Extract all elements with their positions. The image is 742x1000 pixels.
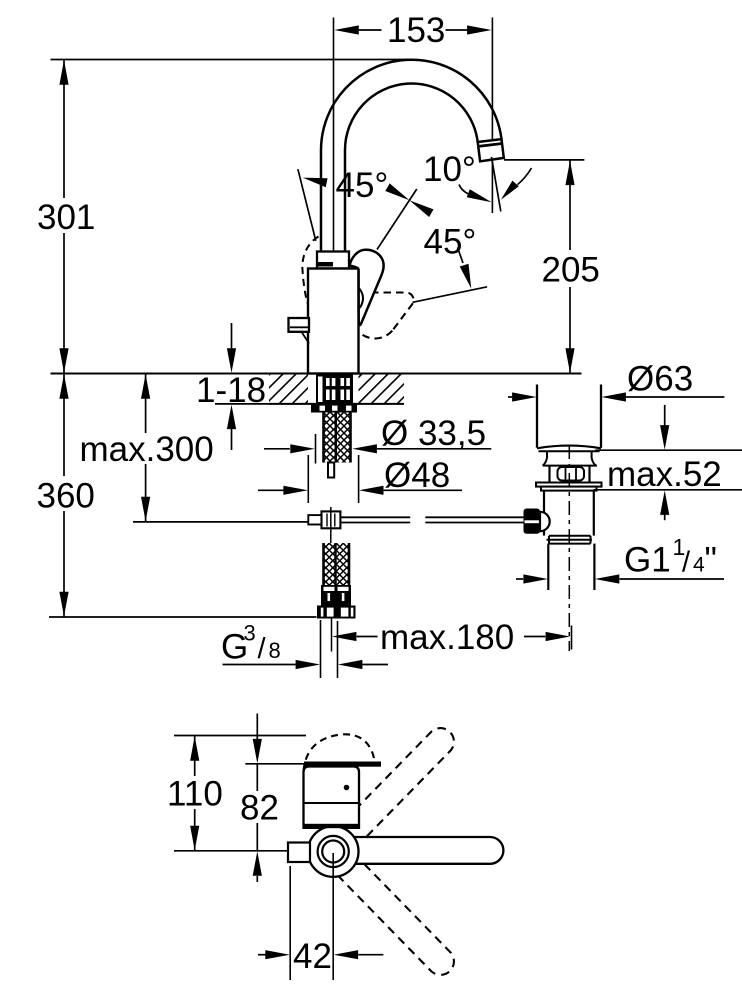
dim 1-18 leader underline bbox=[215, 403, 269, 405]
45-deg left arrow bbox=[303, 178, 328, 188]
plan swivel circle outer bbox=[308, 826, 359, 877]
dim 153 arrow left bbox=[334, 25, 359, 34]
45-deg lower arrow tail bbox=[458, 248, 464, 264]
dashed lever position forward bbox=[352, 293, 414, 339]
mounting washer and nut bbox=[311, 404, 357, 413]
dim 110 label bbox=[163, 778, 225, 808]
dim 82 label bbox=[237, 793, 279, 823]
dim 360 bottom reference line bbox=[49, 616, 317, 618]
dim 153 line left tail bbox=[359, 29, 382, 31]
drain flange top line bbox=[539, 450, 600, 452]
dim 205 arrow down bbox=[565, 348, 574, 373]
svg-text:Ø63: Ø63 bbox=[627, 360, 693, 399]
dim max180 arrow left bbox=[332, 632, 357, 641]
svg-text:205: 205 bbox=[542, 251, 600, 290]
dim G1-1/4 line right bbox=[620, 578, 725, 580]
svg-text:max.52: max.52 bbox=[607, 455, 722, 494]
rod segment 1 bbox=[340, 516, 410, 518]
plan lever bar (thick) bbox=[304, 762, 381, 767]
dim 360 line upper bbox=[63, 374, 65, 477]
dim 205 top reference line (outlet height) bbox=[504, 159, 584, 161]
dim dia48 right tail bbox=[384, 489, 462, 491]
dim 360 arrow down bbox=[59, 592, 68, 617]
10-deg tilted outlet axis line bbox=[492, 157, 501, 212]
counter hatching left bbox=[240, 374, 348, 404]
spout inner curve bbox=[345, 84, 478, 252]
drain dome cap bbox=[537, 446, 601, 449]
svg-text:max.180: max.180 bbox=[380, 618, 514, 657]
svg-text:": " bbox=[705, 541, 717, 580]
dim 42 extension left bbox=[289, 866, 291, 980]
spout outer curve bbox=[321, 60, 502, 252]
dim dia63 left tail bbox=[508, 396, 512, 398]
dim 42 left arrow bbox=[258, 954, 266, 956]
dim G1-1/4 arrow right bbox=[595, 574, 620, 583]
drain popup housing bbox=[548, 466, 550, 483]
dim max52 top arrow bbox=[664, 405, 666, 426]
10-deg right leader arrow bbox=[501, 181, 519, 200]
mounting shank (threaded) bbox=[316, 375, 353, 404]
45-deg lower leg line bbox=[413, 287, 488, 303]
10-deg right leader bbox=[518, 168, 532, 185]
dim 110/82 bottom reference line bbox=[174, 850, 289, 852]
dim dia63 arrow left bbox=[512, 392, 537, 401]
plan body band (thick) bbox=[304, 824, 360, 828]
45-deg bowtie arrow lower-right bbox=[409, 200, 433, 217]
hose gap center line bbox=[330, 533, 332, 544]
plan faucet body bbox=[304, 767, 360, 828]
svg-text:45°: 45° bbox=[336, 166, 389, 205]
rod tee block bbox=[322, 511, 341, 528]
drain neck bbox=[546, 451, 548, 458]
drain center line bbox=[568, 445, 570, 651]
rod segment 2 bbox=[425, 516, 524, 518]
G3/8 arrow left bbox=[296, 660, 321, 669]
dim dia33.5 arrow left bbox=[290, 444, 315, 453]
drain pipe left edge bbox=[536, 385, 538, 448]
dim max300 bottom reference line bbox=[133, 521, 308, 523]
dim 153 arrow right bbox=[467, 25, 492, 34]
faucet body bbox=[308, 269, 359, 374]
dim G1-1/4 arrow left bbox=[523, 574, 548, 583]
drain tailpipe right bbox=[593, 544, 595, 590]
dim 301 arrow up bbox=[59, 60, 68, 84]
dim dia33.5 right tail bbox=[377, 448, 491, 450]
rod left end cap bbox=[308, 515, 321, 524]
collar black mark bbox=[318, 262, 334, 267]
drain pivot detail bbox=[558, 467, 585, 481]
svg-text:10°: 10° bbox=[423, 150, 476, 189]
dim max300 arrow down bbox=[141, 497, 150, 522]
svg-text:/: / bbox=[258, 633, 267, 665]
svg-text:4: 4 bbox=[693, 554, 705, 577]
plan swivel circle middle bbox=[318, 836, 349, 867]
dim 205 label bbox=[538, 250, 602, 287]
dim max300 arrow up bbox=[141, 374, 150, 399]
solid lever handle bbox=[350, 250, 384, 325]
plan swivel circle inner bbox=[322, 841, 344, 863]
svg-text:Ø48: Ø48 bbox=[384, 456, 450, 495]
svg-text:3: 3 bbox=[244, 621, 256, 646]
dim 360 label bbox=[33, 477, 93, 510]
svg-text:301: 301 bbox=[37, 198, 95, 237]
dim max300 line lower bbox=[145, 464, 147, 522]
svg-text:G1: G1 bbox=[624, 541, 671, 580]
flexible hose lower section bbox=[323, 543, 351, 585]
dim dia33.5 arrow right bbox=[352, 444, 377, 453]
svg-text:/: / bbox=[682, 547, 691, 579]
svg-text:45°: 45° bbox=[424, 223, 477, 262]
counter hatching right bbox=[332, 374, 440, 404]
dim 110 arrows bbox=[190, 736, 199, 761]
45-deg bowtie arrow upper-left bbox=[385, 183, 409, 200]
hose connector block bbox=[321, 585, 351, 606]
svg-text:153: 153 bbox=[387, 11, 445, 50]
drain body left bbox=[543, 491, 545, 536]
dim max180 arrow right bbox=[524, 636, 545, 638]
dim 110 top reference line bbox=[174, 735, 306, 737]
45-deg left line (lever tilt envelope) bbox=[298, 169, 316, 241]
dim dia48 extension right bbox=[358, 455, 360, 503]
svg-text:42: 42 bbox=[293, 937, 332, 976]
center line below nut bbox=[331, 619, 333, 652]
svg-text:82: 82 bbox=[240, 789, 279, 828]
G3/8 arrow right bbox=[338, 660, 363, 669]
drain tailpipe left bbox=[547, 544, 549, 590]
drain bottom rings bbox=[549, 535, 591, 537]
G3/8 dim line left bbox=[223, 664, 296, 666]
pull-rod knob bbox=[289, 318, 310, 332]
dim 205 line upper bbox=[569, 160, 571, 250]
dim 42 right arrow bbox=[334, 950, 359, 959]
dim dia48 left tail bbox=[258, 489, 284, 491]
dim 82 bottom arrow bbox=[253, 851, 262, 876]
dim max300 line upper bbox=[145, 374, 147, 434]
plan screw dot bbox=[344, 785, 350, 791]
svg-text:110: 110 bbox=[167, 775, 223, 814]
drain rod knob bbox=[524, 509, 541, 534]
plan dashed lever at -45 bbox=[338, 856, 454, 974]
dim dia48 arrow right bbox=[359, 486, 384, 495]
drain knob bump bbox=[540, 512, 550, 531]
dim 82 line bbox=[256, 764, 258, 791]
dim 82 top reference line bbox=[245, 763, 310, 765]
dim 360 arrow up bbox=[59, 374, 68, 399]
G3/8 extension right bbox=[337, 621, 339, 678]
dim 153 extension line left / faucet center line bbox=[333, 18, 335, 374]
dim 301 label bbox=[33, 199, 93, 232]
dashed lever position upper-left bbox=[302, 237, 318, 304]
pull rod stub bbox=[328, 463, 334, 478]
dim dia33.5 left tail bbox=[264, 448, 290, 450]
flexible hose upper section bbox=[323, 413, 352, 463]
45-deg lower arrow bbox=[460, 264, 472, 289]
svg-text:Ø 33,5: Ø 33,5 bbox=[381, 414, 486, 453]
dim max180 right extension bbox=[571, 626, 573, 650]
aerator joint line bbox=[478, 144, 502, 147]
cartridge collar bbox=[317, 252, 349, 269]
lever pivot boss arc bbox=[359, 289, 363, 309]
plan body split line bbox=[304, 802, 360, 804]
drain neck base line bbox=[543, 465, 597, 467]
aerator outlet bbox=[478, 139, 504, 161]
10-deg left leader arrow bbox=[467, 189, 492, 202]
dim 1-18 upper arrow bbox=[231, 323, 233, 350]
G3/8 dim line right bbox=[362, 664, 388, 666]
dim max52 top reference line bbox=[595, 449, 742, 451]
drain flange ring bbox=[536, 483, 602, 487]
hose end nut G3/8 bbox=[317, 606, 356, 619]
dim max52 bottom arrow bbox=[664, 514, 666, 520]
drain flange ring 2 bbox=[541, 487, 597, 491]
drain body right bbox=[593, 491, 595, 536]
dim G1-1/4 line left bbox=[516, 578, 523, 580]
dim 301 line upper bbox=[63, 60, 65, 199]
dim 153 line right tail bbox=[446, 29, 469, 31]
plan side tab bbox=[288, 843, 310, 863]
10-deg left leader bbox=[459, 185, 468, 194]
dim dia63 arrow right bbox=[601, 392, 626, 401]
lever axis line (45-deg) bbox=[377, 189, 417, 250]
dim 110 line bbox=[194, 736, 196, 777]
dim 205 line lower bbox=[569, 286, 571, 374]
counter bottom line bbox=[269, 403, 404, 405]
svg-text:8: 8 bbox=[269, 638, 281, 663]
dim 301 arrow down bbox=[59, 348, 68, 373]
dim 1-18 lower arrow bbox=[231, 429, 233, 450]
dim dia33.5 extension line bbox=[315, 434, 317, 464]
dim 360 line lower bbox=[63, 511, 65, 617]
dim 205 arrow up bbox=[565, 161, 574, 186]
dim 301 line lower bbox=[63, 233, 65, 374]
dim 153 extension line right / outlet vertical reference bbox=[491, 18, 493, 214]
dim dia48 arrow left bbox=[283, 486, 308, 495]
plan solid lever bbox=[348, 837, 503, 864]
G3/8 extension left bbox=[320, 620, 322, 678]
dim 42 extension right bbox=[332, 853, 334, 980]
dim dia63 right tail bbox=[626, 396, 724, 398]
dim dia48 extension left bbox=[307, 455, 309, 503]
counter top line (mounting surface) bbox=[51, 373, 582, 375]
dim 82 top arrow bbox=[256, 714, 258, 741]
dim max52 bottom reference line bbox=[594, 489, 742, 491]
svg-text:360: 360 bbox=[37, 477, 95, 516]
svg-text:max.300: max.300 bbox=[80, 430, 214, 469]
plan dashed lever at +45 bbox=[338, 728, 454, 846]
drain pipe right edge bbox=[600, 385, 602, 448]
top reference line (spout height) bbox=[51, 59, 413, 61]
plan dashed lever raised outline bbox=[304, 734, 375, 771]
